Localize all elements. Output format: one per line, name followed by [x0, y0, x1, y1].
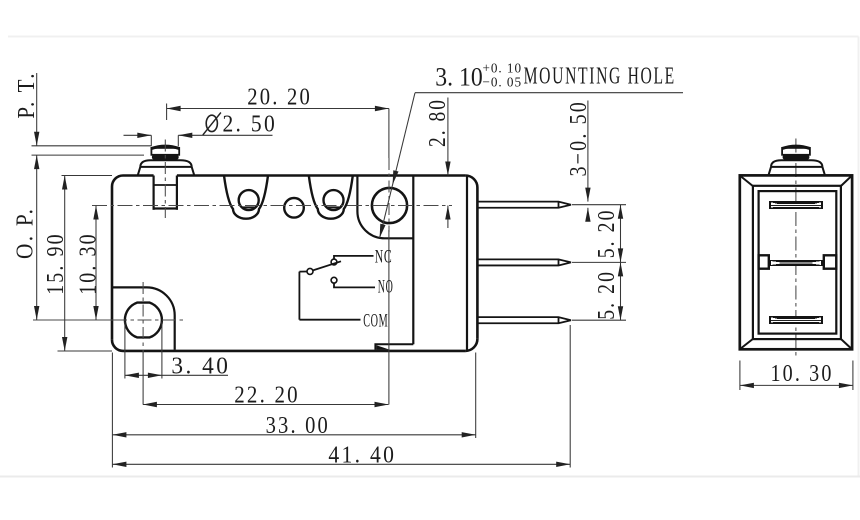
svg-text:+0. 10: +0. 10 — [483, 62, 523, 77]
svg-text:3−0. 50: 3−0. 50 — [565, 100, 592, 177]
svg-text:10. 30: 10. 30 — [74, 232, 101, 295]
svg-text:2. 80: 2. 80 — [424, 98, 451, 147]
svg-text:P. T.: P. T. — [13, 71, 40, 118]
svg-text:2. 50: 2. 50 — [223, 110, 278, 137]
svg-text:MOUNTING HOLE: MOUNTING HOLE — [524, 63, 676, 90]
svg-text:3. 40: 3. 40 — [171, 353, 230, 380]
svg-text:20. 20: 20. 20 — [247, 83, 312, 110]
svg-text:33. 00: 33. 00 — [266, 412, 330, 439]
svg-text:−0. 05: −0. 05 — [483, 76, 523, 91]
svg-text:5. 20: 5. 20 — [593, 270, 620, 320]
svg-text:NO: NO — [378, 277, 394, 298]
svg-text:5. 20: 5. 20 — [593, 208, 620, 258]
svg-text:O. P.: O. P. — [12, 207, 39, 259]
svg-text:3. 10: 3. 10 — [435, 61, 483, 91]
svg-text:41. 40: 41. 40 — [328, 441, 396, 468]
svg-text:15. 90: 15. 90 — [42, 232, 69, 295]
svg-text:22. 20: 22. 20 — [234, 381, 300, 408]
svg-text:NC: NC — [375, 246, 393, 267]
svg-text:COM: COM — [363, 311, 388, 332]
svg-text:10. 30: 10. 30 — [771, 360, 834, 387]
